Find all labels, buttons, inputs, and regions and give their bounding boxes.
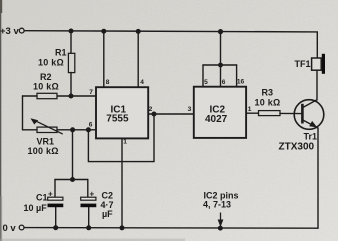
Tr1 base bar — [301, 104, 304, 124]
IC2 pin5 wire — [202, 65, 204, 87]
svg-text:ZTX300: ZTX300 — [279, 142, 315, 153]
wire R2 to IC1 pin7 — [57, 95, 96, 97]
Tr1 emitter stroke — [303, 120, 318, 128]
arrow IC2 pins to 0V — [218, 213, 224, 228]
0V rail — [24, 227, 318, 230]
capacitor C1 plates — [48, 197, 63, 200]
svg-text:TF1: TF1 — [295, 59, 311, 69]
potentiometer VR1 body — [37, 127, 57, 132]
wire VR1 node down — [72, 130, 74, 180]
IC2 pin6 wire — [220, 65, 222, 87]
svg-text:R1: R1 — [55, 48, 67, 58]
node rail-pin8 — [101, 29, 106, 34]
svg-text:100 kΩ: 100 kΩ — [28, 146, 59, 156]
wire VR1 to IC1 pin6 — [57, 129, 96, 131]
scan edge left — [0, 0, 1, 241]
IC1 pin1 wire — [121, 139, 123, 228]
wire VR1 left — [23, 129, 38, 131]
IC1 pin8 wire — [103, 31, 105, 87]
wire R2 left — [23, 95, 38, 97]
+3V terminal — [19, 28, 24, 33]
wire C2 top — [87, 180, 89, 198]
svg-text:0 v: 0 v — [3, 223, 17, 234]
svg-text:16: 16 — [237, 79, 245, 86]
VR1 wiper arrow — [34, 120, 63, 134]
node cap branch junction — [70, 177, 75, 182]
wire left vertical R2-VR1 — [22, 96, 24, 130]
Tr1 emitter arrowhead — [309, 121, 317, 128]
node pin2-loop — [152, 112, 157, 117]
IC2 supply bar — [203, 64, 237, 66]
svg-text:1: 1 — [123, 139, 127, 146]
0V terminal — [19, 225, 24, 230]
VR1 arrowhead — [30, 118, 38, 124]
node rail-IC2 supply — [218, 29, 223, 34]
IC1 pin2 wire — [149, 113, 155, 115]
op-amp U1 / IC1 box — [96, 87, 148, 138]
svg-text:6: 6 — [89, 121, 93, 128]
node pin1-0V — [120, 225, 125, 230]
svg-text:R3: R3 — [262, 88, 274, 98]
wire C1 bottom — [55, 207, 57, 228]
svg-text:10 kΩ: 10 kΩ — [255, 98, 281, 108]
svg-text:3: 3 — [188, 106, 192, 113]
IC2 box — [194, 87, 246, 138]
node R1-R2-pin7 — [69, 94, 74, 99]
svg-text:4, 7-13: 4, 7-13 — [203, 200, 231, 210]
node IC2 supply bar — [218, 63, 223, 68]
svg-text:+: + — [90, 190, 95, 199]
Tr1 collector stroke — [303, 100, 317, 108]
wire C2 bottom — [88, 207, 90, 228]
svg-text:8: 8 — [106, 79, 110, 86]
wire IC2 pin1 to R3 — [246, 112, 258, 114]
node rail-R1 — [69, 29, 74, 34]
capacitor branch wire from VR1 node — [55, 130, 89, 228]
svg-text:R2: R2 — [40, 72, 52, 82]
IC1 pin4 wire — [137, 31, 139, 87]
wire TF1 to Tr1 collector — [316, 70, 318, 100]
svg-text:Tr1: Tr1 — [304, 132, 318, 142]
svg-text:10 µF: 10 µF — [24, 203, 48, 213]
wire rail corner to TF1 — [316, 32, 318, 58]
svg-text:4: 4 — [140, 79, 144, 86]
wire R1 bottom — [70, 73, 72, 97]
svg-text:10 kΩ: 10 kΩ — [38, 58, 64, 68]
svg-text:7555: 7555 — [106, 113, 129, 124]
wire R1 top — [70, 31, 72, 53]
resistor R1 body — [68, 53, 74, 72]
wire pin6-pin2 feedback loop — [88, 114, 154, 162]
svg-text:VR1: VR1 — [37, 137, 55, 147]
node C2-0V — [86, 225, 91, 230]
wire Tr1 emitter to 0V — [317, 128, 319, 228]
svg-text:µF: µF — [102, 209, 113, 219]
Tr1 circle — [294, 100, 324, 130]
svg-text:7: 7 — [89, 89, 93, 96]
wire C1 top — [54, 180, 56, 198]
svg-text:C1: C1 — [36, 193, 48, 203]
+3V rail — [24, 31, 317, 32]
capacitor C2 plates — [81, 197, 96, 200]
svg-text:+3 v: +3 v — [0, 26, 19, 37]
node VR1-C branch — [70, 127, 75, 132]
node rail-pin4 — [136, 29, 141, 34]
resistor R2 body — [37, 93, 57, 98]
speaker TF1 — [312, 58, 322, 70]
wire IC1 pin2 to IC2 pin3 — [154, 113, 194, 115]
node C1-0V — [53, 225, 58, 230]
resistor R3 body — [259, 111, 281, 116]
scan smudge bottom — [0, 239, 185, 241]
svg-text:10 kΩ: 10 kΩ — [33, 82, 59, 92]
svg-text:4027: 4027 — [205, 114, 228, 125]
IC2 pin16 wire — [236, 65, 238, 87]
wire R3 to Tr1 base — [280, 112, 302, 114]
svg-text:+: + — [48, 190, 53, 199]
svg-text:6: 6 — [222, 79, 226, 86]
wire cap top bar — [55, 179, 88, 181]
svg-text:5: 5 — [204, 79, 208, 86]
svg-text:1: 1 — [248, 106, 252, 113]
node IC2pins-0V — [218, 226, 223, 231]
IC2 supply drop from rail — [220, 32, 222, 65]
transistor Q1 / Tr1 — [294, 100, 324, 130]
svg-text:2: 2 — [149, 106, 153, 113]
node pin6-loop — [86, 127, 91, 132]
